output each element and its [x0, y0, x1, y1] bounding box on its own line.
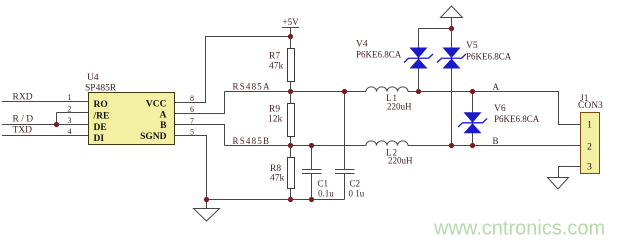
- svg-text:R7: R7: [269, 52, 280, 62]
- resistor R8: [290, 146, 292, 200]
- svg-text:+5V: +5V: [283, 17, 300, 27]
- svg-text:U4: U4: [87, 73, 99, 83]
- svg-text:47k: 47k: [269, 62, 284, 72]
- svg-text:8: 8: [190, 94, 194, 103]
- svg-text:CON3: CON3: [578, 101, 603, 111]
- wire pin 7 B out: [175, 125, 225, 146]
- svg-text:1: 1: [68, 93, 72, 102]
- TVS diode V5: [443, 48, 461, 59]
- svg-text:A: A: [493, 82, 500, 92]
- svg-text:3: 3: [587, 163, 592, 173]
- wire V6 branch vertical: [472, 92, 474, 146]
- svg-text:3: 3: [68, 116, 72, 125]
- wire TXD to pin 4: [2, 135, 89, 137]
- wire J1 pin 3 to ground: [559, 167, 581, 178]
- junction V6 bottom on B: [470, 143, 475, 148]
- wire VCC pin8 to +5V rail: [175, 37, 291, 103]
- junction SGND rail: [204, 197, 209, 202]
- wire net RS485B: [225, 145, 367, 147]
- junction L1/V4: [416, 89, 421, 94]
- svg-text:220uH: 220uH: [387, 102, 412, 112]
- svg-text:RS485B: RS485B: [233, 136, 271, 146]
- junction C1 bottom: [309, 197, 314, 202]
- svg-text:V5: V5: [466, 41, 478, 51]
- svg-text:P6KE6.8CA: P6KE6.8CA: [466, 52, 512, 62]
- svg-text:2: 2: [68, 105, 72, 114]
- TVS diode V4: [410, 48, 428, 59]
- wire RS485B after L2 to J1 pin 2: [408, 145, 581, 147]
- TVS diode V6: [464, 112, 482, 123]
- svg-text:12k: 12k: [268, 115, 283, 125]
- wire pin 2 stub: [57, 112, 89, 114]
- svg-text:/RE: /RE: [93, 112, 110, 122]
- junction top rail: [449, 26, 454, 31]
- wire pin 5 SGND to ground: [175, 136, 207, 209]
- svg-text:DE: DE: [94, 123, 107, 133]
- wire V5 branch vertical: [451, 29, 453, 146]
- junction RS485B R9/R8: [288, 143, 293, 148]
- svg-text:SGND: SGND: [140, 132, 167, 142]
- junction RS485A R7/R9: [288, 89, 293, 94]
- svg-text:R8: R8: [270, 164, 281, 174]
- svg-text:A: A: [160, 111, 167, 121]
- ground symbol near J1: [548, 178, 569, 190]
- capacitor C1: [302, 146, 322, 200]
- wire pin 6 A out: [175, 92, 225, 114]
- svg-text:2: 2: [587, 143, 592, 153]
- junction on R/D wire: [54, 122, 59, 127]
- svg-text:DI: DI: [94, 134, 105, 144]
- wire RS485A after L1 to J1 pin 1: [408, 92, 581, 125]
- earth symbol top: [441, 6, 463, 29]
- junction +5V rail: [288, 34, 293, 39]
- svg-text:RO: RO: [94, 100, 108, 110]
- svg-text:RXD: RXD: [13, 93, 33, 103]
- junction R8 bottom: [288, 197, 293, 202]
- inductor L1: [366, 87, 408, 92]
- svg-text:P6KE6.8CA: P6KE6.8CA: [356, 50, 402, 60]
- svg-text:0.1u: 0.1u: [318, 189, 334, 199]
- svg-text:P6KE6.8CA: P6KE6.8CA: [494, 114, 540, 124]
- svg-text:1: 1: [587, 121, 592, 131]
- wire R/D to pin 3: [2, 124, 89, 126]
- wire net RS485A: [225, 91, 367, 93]
- svg-text:47k: 47k: [270, 174, 285, 184]
- wire junction vertical pin2-pin3: [56, 113, 58, 125]
- junction C2 top on RS485A: [342, 89, 347, 94]
- svg-text:B: B: [160, 121, 167, 131]
- wire top rail V4-V5: [419, 28, 452, 30]
- svg-text:V4: V4: [356, 40, 368, 50]
- svg-text:C2: C2: [350, 179, 361, 189]
- connector J1 body: [581, 113, 600, 174]
- capacitor C2: [335, 92, 355, 200]
- wire RXD to pin 1: [2, 101, 89, 103]
- junction V5 on B: [449, 143, 454, 148]
- svg-text:RS485A: RS485A: [233, 82, 271, 92]
- resistor R7: [290, 37, 292, 92]
- svg-text:0 1u: 0 1u: [349, 189, 365, 199]
- svg-text:R / D: R / D: [13, 115, 34, 125]
- svg-text:6: 6: [190, 105, 194, 114]
- ground symbol under U4: [194, 209, 220, 222]
- wire ground rail: [207, 199, 345, 201]
- junction V6 top on A: [470, 89, 475, 94]
- junction C1 top: [309, 143, 314, 148]
- svg-text:B: B: [493, 136, 499, 146]
- svg-text:www.cntronics.com: www.cntronics.com: [433, 218, 605, 240]
- svg-text:220uH: 220uH: [388, 156, 413, 166]
- wire V4 branch vertical: [418, 29, 420, 92]
- svg-text:C1: C1: [318, 179, 329, 189]
- svg-text:V6: V6: [494, 104, 506, 114]
- IC U4 SP485R body: [89, 93, 175, 145]
- svg-text:SP485R: SP485R: [85, 84, 117, 94]
- inductor L2: [366, 141, 408, 146]
- power +5V symbol: [282, 28, 299, 37]
- svg-text:TXD: TXD: [13, 126, 33, 136]
- svg-text:VCC: VCC: [146, 99, 167, 109]
- svg-text:4: 4: [68, 127, 72, 136]
- resistor R9: [290, 92, 292, 146]
- svg-text:R9: R9: [269, 105, 280, 115]
